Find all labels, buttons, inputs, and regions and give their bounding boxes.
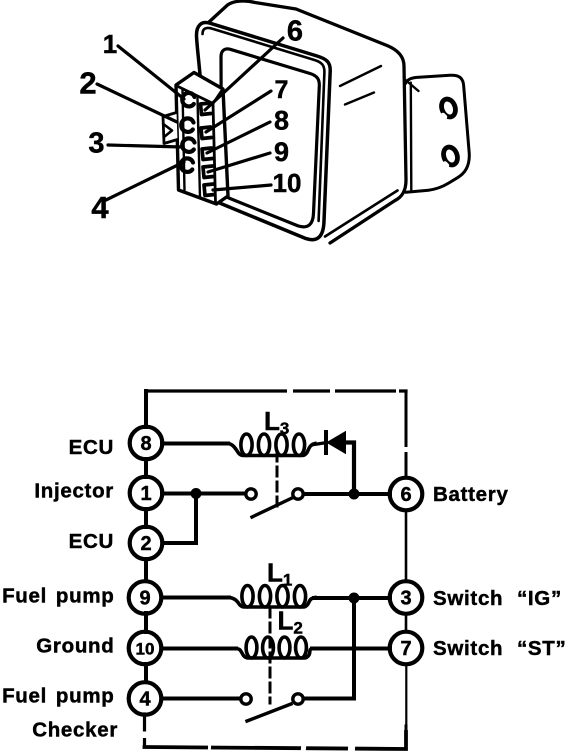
svg-text:Fuel pump: Fuel pump [2,685,114,708]
diode D1 body [328,433,345,453]
pin 10 circle [129,632,162,665]
relay contact S1 blade [252,498,292,517]
junction dot node C [349,593,360,604]
pin 9 circle [129,581,162,614]
relay contact S1 left circle [246,489,256,499]
linkage dashed line upper [276,452,279,507]
svg-text:Battery: Battery [433,483,509,506]
relay body outline (top face and right side) [209,1,406,243]
pin 6 circle [390,478,423,511]
junction dot node B (pin1/pin2) [191,488,202,499]
leader line 1 [118,46,184,99]
relay contact S2 blade [247,704,291,721]
wire pin4 to contact S2 [163,697,240,701]
pin 1 terminal [182,93,194,107]
svg-text:1: 1 [140,483,151,505]
svg-text:L3: L3 [264,406,289,438]
svg-text:6: 6 [400,484,411,506]
wire pin3-pin7 [405,614,408,633]
pin 9 terminal [203,166,214,178]
coil L1 [229,586,315,608]
pin 3 circle [390,581,423,614]
svg-text:10: 10 [136,640,155,659]
pin 1 circle [130,477,163,510]
svg-text:7: 7 [275,76,289,104]
svg-text:4: 4 [91,190,109,225]
svg-text:6: 6 [287,15,303,47]
svg-text:Switch “IG”: Switch “IG” [433,587,562,610]
svg-text:ECU: ECU [69,436,114,459]
svg-text:ECU: ECU [69,530,114,553]
pin 4 terminal [181,158,193,172]
leader line 7 [206,91,271,132]
relay front flange outer ring [197,23,331,240]
svg-text:Ground: Ground [36,635,114,658]
svg-text:7: 7 [400,638,411,660]
right rail wire bottom (below pin 7) [405,664,407,724]
svg-text:Switch “ST”: Switch “ST” [433,637,566,660]
wire pin1 to contact [162,492,244,496]
relay flange lip line [203,28,325,221]
wire pin8 to coil L3 [162,442,228,446]
wire coil L1 to pin3 [314,596,390,600]
relay front face inner ring [221,49,319,227]
pin 2 circle [130,527,163,560]
pin 3 terminal [182,138,194,152]
svg-text:Injector: Injector [34,480,114,503]
wire pin2 to node B [164,497,196,543]
svg-text:Fuel pump: Fuel pump [2,585,114,608]
wire diode to junction A [345,443,354,492]
relay contact S2 left circle [241,694,251,704]
wire pin1-pin2 [144,509,148,527]
wire pin9-pin10 [144,613,148,632]
wire pin9 to coil L1 [162,596,229,600]
pin 7 circle [390,632,423,665]
svg-text:2: 2 [79,66,96,101]
wire node C to contact S2 [305,598,354,699]
leader line 9 [208,153,270,172]
leader line 6 [205,38,283,110]
wire pin4 to bottom rail [143,714,146,747]
relay side face seam lines [340,66,381,105]
leader line 4 [106,162,184,200]
pin 6 terminal [201,103,212,115]
wire pin8-pin1 [144,459,148,477]
leader line 10 [213,185,271,190]
leader line 2 [97,84,177,122]
svg-text:L2: L2 [278,606,303,638]
wire pin8 to top rail [144,391,148,427]
wire contact S1 to pin6 with junction A [304,492,391,496]
coil L3 [228,434,315,456]
svg-text:Checker: Checker [32,719,118,742]
svg-text:9: 9 [274,137,289,167]
wire pin6-pin3 [405,510,408,581]
svg-text:3: 3 [400,588,411,610]
bottom rail wire [145,732,407,749]
scan artifact gaps on wires [145,391,407,749]
svg-text:2: 2 [140,533,151,555]
leader line 8 [207,122,270,153]
top rail wire [146,389,406,392]
junction dot node A [349,489,360,500]
bracket hole upper [439,97,458,119]
pin 2 terminal [181,118,193,132]
mounting bracket [406,75,470,192]
bracket hole lower [441,145,460,167]
leader line 3 [108,145,182,147]
coil L2 [236,637,313,658]
wire pin10-pin4 [144,664,148,682]
wire coil L3 to diode [314,443,324,445]
right rail wire top (to pin 6) [405,391,408,478]
relay contact S2 right circle [293,694,303,704]
svg-text:8: 8 [274,106,289,136]
wire coil L2 to pin7 [312,647,390,651]
svg-text:1: 1 [103,29,117,59]
pin 4 circle [129,682,162,715]
svg-text:10: 10 [273,168,302,198]
svg-text:L1: L1 [267,558,292,590]
wire pin2-pin9 [144,559,148,581]
wire pin10 to coil L2 [162,647,236,651]
pin 8 circle [130,427,163,460]
connector tab with notch [163,113,178,144]
svg-text:9: 9 [139,588,150,610]
pin 10 terminal [204,184,215,196]
pin 8 terminal [202,148,213,160]
svg-text:3: 3 [88,128,104,160]
relay contact S1 right circle [293,489,303,499]
diode D1 cathode bar [324,432,328,453]
pin 7 terminal [201,127,212,139]
svg-text:8: 8 [140,433,151,455]
linkage dashed line lower [269,608,272,703]
svg-text:4: 4 [139,689,151,711]
connector shroud outline [176,73,228,205]
